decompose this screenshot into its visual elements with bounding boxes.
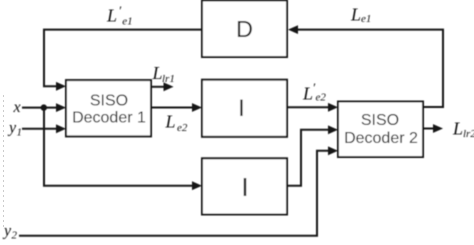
svg-text:x: x <box>13 99 21 116</box>
svg-text:e2: e2 <box>316 91 327 103</box>
svg-text:I: I <box>238 95 245 122</box>
svg-text:L: L <box>165 112 176 132</box>
svg-text:e1: e1 <box>122 15 132 27</box>
svg-text:SISO: SISO <box>361 112 399 129</box>
svg-text:Decoder 1: Decoder 1 <box>72 110 146 127</box>
svg-text:lr2: lr2 <box>463 128 474 140</box>
svg-text:y: y <box>7 120 17 137</box>
svg-text:e1: e1 <box>361 13 371 25</box>
svg-text:e2: e2 <box>177 122 188 134</box>
svg-text:1: 1 <box>17 127 23 139</box>
svg-text:L: L <box>350 5 361 25</box>
svg-text:y: y <box>2 223 12 240</box>
svg-text:SISO: SISO <box>90 93 128 110</box>
svg-text:L: L <box>302 84 313 104</box>
svg-text:L: L <box>152 63 163 83</box>
svg-text:D: D <box>236 16 253 42</box>
svg-text:L: L <box>452 119 463 139</box>
svg-text:′: ′ <box>118 3 121 18</box>
svg-text:I: I <box>241 172 248 202</box>
svg-text:L: L <box>106 6 117 26</box>
svg-text:Decoder 2: Decoder 2 <box>344 130 418 147</box>
svg-text:lr1: lr1 <box>162 73 175 85</box>
svg-text:2: 2 <box>12 230 18 242</box>
